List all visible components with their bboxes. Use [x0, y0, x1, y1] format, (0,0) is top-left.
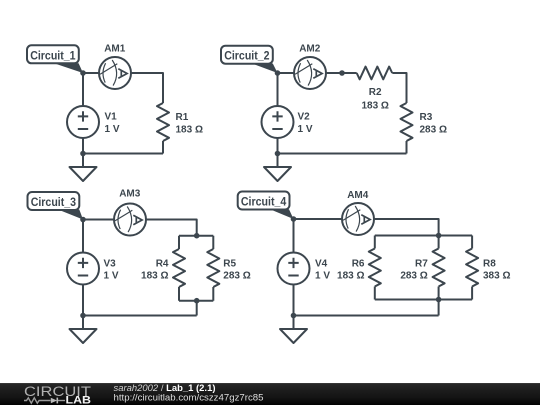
- svg-text:R8: R8: [483, 259, 496, 270]
- svg-text:R1: R1: [176, 112, 189, 123]
- wire top bar circuit 3: [179, 235, 213, 237]
- wire junction to R2: [342, 72, 357, 74]
- label Circuit_1: [27, 45, 83, 73]
- svg-text:Circuit_3: Circuit_3: [31, 195, 77, 209]
- voltage source V4 1 V: [278, 253, 331, 285]
- svg-text:283 Ω: 283 Ω: [400, 271, 427, 282]
- svg-text:LAB: LAB: [66, 395, 92, 405]
- ground circuit 2: [264, 154, 291, 182]
- svg-text:V1: V1: [105, 112, 118, 123]
- svg-text:R6: R6: [352, 259, 365, 270]
- wire node to V2 top: [277, 73, 279, 106]
- svg-text:1 V: 1 V: [298, 124, 313, 135]
- wire top bar circuit 4: [375, 235, 472, 237]
- svg-text:sarah2002 / Lab_1 (2.1): sarah2002 / Lab_1 (2.1): [114, 383, 216, 393]
- resistor R4 183 ohm: [141, 236, 185, 301]
- wire bottom rail circuit 4: [294, 315, 439, 317]
- wire AM1 to R1 top: [131, 73, 163, 103]
- wire V3 bottom: [82, 285, 84, 316]
- junction dot circuit 4 bottom: [436, 297, 442, 303]
- resistor R6 183 ohm: [337, 236, 381, 300]
- voltage source V3 1 V: [67, 253, 119, 285]
- svg-text:V3: V3: [104, 259, 117, 270]
- svg-text:AM2: AM2: [299, 43, 321, 54]
- voltage source V2 1 V: [262, 106, 313, 138]
- node circuit 1 bottom: [80, 151, 86, 157]
- node circuit 4 top: [291, 216, 297, 222]
- wire bottom bar circuit 3: [179, 300, 213, 302]
- label Circuit_4: [238, 192, 294, 220]
- wire bottom bar circuit 4: [375, 299, 472, 301]
- wire AM3 to parallel top junction: [146, 220, 197, 236]
- node circuit 4 bottom: [291, 313, 297, 319]
- wire node to AM3: [83, 219, 114, 221]
- wire V1 bottom: [82, 138, 84, 154]
- wire R2 to R3 top: [392, 73, 406, 103]
- svg-text:183 Ω: 183 Ω: [361, 101, 388, 112]
- svg-text:283 Ω: 283 Ω: [420, 124, 447, 135]
- label Circuit_3: [28, 192, 84, 220]
- resistor R3 283 ohm: [401, 103, 447, 141]
- node circuit 3 top: [80, 217, 86, 223]
- voltage source V1 1 V: [67, 106, 120, 138]
- svg-text:R3: R3: [420, 112, 433, 123]
- svg-text:http://circuitlab.com/cszz47gz: http://circuitlab.com/cszz47gz7rc85: [114, 392, 264, 402]
- wire junction to bottom rail circuit 4: [438, 300, 440, 316]
- ground circuit 3: [70, 316, 97, 344]
- svg-text:AM4: AM4: [347, 190, 369, 201]
- wire AM4 to parallel top junction: [374, 219, 439, 236]
- svg-text:V2: V2: [298, 112, 311, 123]
- svg-text:Circuit_2: Circuit_2: [224, 49, 270, 63]
- footer bar: [0, 383, 540, 405]
- svg-text:383 Ω: 383 Ω: [483, 271, 510, 282]
- ammeter AM2: [294, 43, 326, 89]
- footer title text: [114, 383, 264, 403]
- node circuit 3 bottom: [80, 313, 86, 319]
- node circuit 1 top: [80, 70, 86, 76]
- ground circuit 4: [280, 316, 307, 344]
- svg-text:AM1: AM1: [104, 43, 126, 54]
- footer CircuitLab logo: [24, 384, 91, 405]
- svg-text:1 V: 1 V: [315, 271, 330, 282]
- junction dot circuit 3 bottom: [194, 298, 200, 304]
- svg-text:Circuit_1: Circuit_1: [30, 48, 76, 62]
- svg-text:V4: V4: [315, 259, 328, 270]
- resistor R8 383 ohm: [466, 236, 510, 300]
- wire V4 bottom: [293, 285, 295, 316]
- resistor R7 283 ohm: [400, 236, 444, 300]
- junction dot circuit 2: [339, 70, 345, 76]
- svg-text:1 V: 1 V: [105, 124, 120, 135]
- wire AM2 to junction: [326, 72, 342, 74]
- wire junction to bottom rail circuit 3: [196, 301, 198, 316]
- wire node to AM1: [83, 72, 99, 74]
- wire bottom rail circuit 3: [83, 315, 197, 317]
- label Circuit_2: [221, 46, 278, 73]
- svg-text:R5: R5: [223, 259, 236, 270]
- wire node to AM2: [278, 72, 295, 74]
- wire node to V4 top: [293, 219, 295, 253]
- junction dot circuit 4 top: [436, 233, 442, 239]
- svg-text:R4: R4: [156, 259, 169, 270]
- wire V2 bottom: [277, 138, 279, 154]
- svg-text:183 Ω: 183 Ω: [176, 124, 203, 135]
- svg-text:1 V: 1 V: [104, 271, 119, 282]
- resistor R1 183 ohm: [157, 103, 203, 141]
- wire bottom rail circuit 1: [83, 153, 163, 155]
- ammeter AM3: [114, 189, 146, 236]
- svg-text:183 Ω: 183 Ω: [141, 271, 168, 282]
- resistor R5 283 ohm: [207, 236, 250, 301]
- svg-text:283 Ω: 283 Ω: [223, 271, 250, 282]
- wire node to V1 top: [82, 73, 84, 106]
- svg-text:AM3: AM3: [119, 189, 141, 200]
- node circuit 2 bottom: [275, 151, 281, 157]
- wire node to AM4: [294, 218, 343, 220]
- ammeter AM1: [99, 43, 131, 89]
- ground circuit 1: [70, 154, 97, 182]
- junction dot circuit 3 top: [194, 233, 200, 239]
- wire node to V3 top: [82, 220, 84, 253]
- ammeter AM4: [342, 190, 374, 235]
- resistor R2 183 ohm: [357, 67, 393, 112]
- node circuit 2 top: [275, 70, 281, 76]
- wire R3 bottom: [406, 141, 408, 154]
- svg-text:R2: R2: [369, 87, 382, 98]
- wire R1 bottom: [162, 141, 164, 154]
- svg-text:R7: R7: [415, 259, 428, 270]
- svg-text:183 Ω: 183 Ω: [337, 271, 364, 282]
- wire bottom rail circuit 2: [278, 153, 407, 155]
- svg-text:Circuit_4: Circuit_4: [241, 195, 287, 209]
